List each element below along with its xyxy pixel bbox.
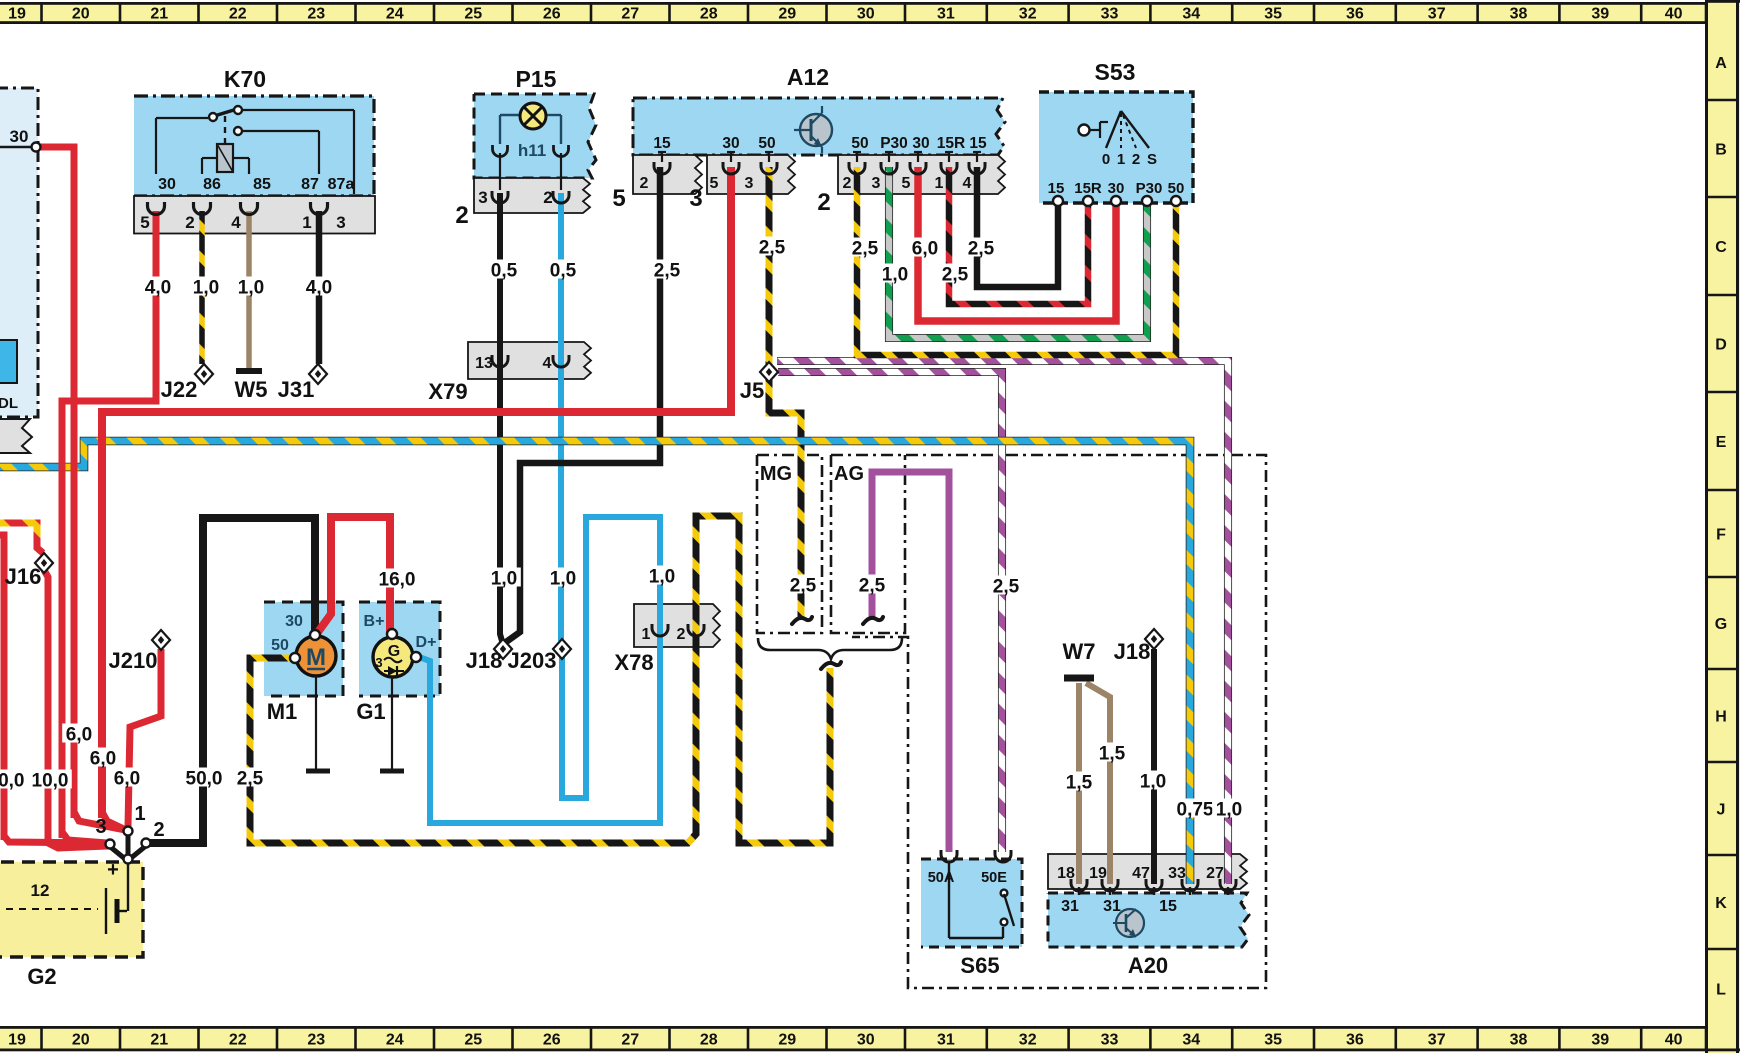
connector strip A12-b (pins 5 3) xyxy=(707,155,795,194)
wire black/yellow striped A12-50 via J5 to MG pigtail xyxy=(769,167,801,620)
ignition switch S53 box xyxy=(1039,92,1193,203)
connector strip A12-c (pins 2 3 5 1 4) xyxy=(838,155,1005,194)
svg-text:87: 87 xyxy=(301,176,319,193)
P15 strip pin numbers xyxy=(478,188,552,207)
svg-text:34: 34 xyxy=(1182,6,1200,23)
label J16 xyxy=(5,564,42,589)
svg-text:X79: X79 xyxy=(428,379,467,404)
wire size labels A20 area xyxy=(1062,743,1246,821)
border ruler bottom xyxy=(0,1026,1740,1051)
svg-text:P15: P15 xyxy=(516,66,557,92)
G1 pin dots xyxy=(387,629,421,662)
splice J16 xyxy=(35,553,53,573)
connector strip K70 (pins 5 2 4 1 3) xyxy=(134,196,375,234)
label J5 xyxy=(740,378,764,403)
harness box MG xyxy=(757,455,822,633)
svg-text:50A: 50A xyxy=(928,870,955,886)
title K70 xyxy=(224,66,266,92)
connector arcs X79 xyxy=(492,355,569,367)
svg-text:W5: W5 xyxy=(235,377,268,402)
svg-text:33: 33 xyxy=(1101,1032,1119,1049)
label G1 xyxy=(356,699,385,724)
relay K70 box xyxy=(134,96,374,196)
connector rect DL (left box) xyxy=(0,340,17,383)
wire grey/green striped S53-P30 to A12 P30 (1,0) xyxy=(889,167,1147,338)
svg-text:3: 3 xyxy=(689,185,702,212)
svg-text:50E: 50E xyxy=(981,870,1007,886)
svg-text:MG: MG xyxy=(760,463,792,485)
svg-text:2,5: 2,5 xyxy=(942,265,969,286)
wire red S53-30 to A12 30 (6,0) xyxy=(918,167,1116,321)
svg-text:34: 34 xyxy=(1182,1032,1200,1049)
svg-text:2: 2 xyxy=(640,175,649,192)
label A20 xyxy=(1128,953,1168,978)
svg-text:15R: 15R xyxy=(1074,180,1102,197)
svg-text:1,5: 1,5 xyxy=(1066,773,1093,794)
svg-text:4: 4 xyxy=(231,213,241,232)
label J18 right xyxy=(1114,639,1151,664)
AG pigtail (purple wire end) xyxy=(863,617,883,624)
svg-text:32: 32 xyxy=(1019,6,1037,23)
wire red far-left (10,0 cut by edge) xyxy=(0,535,4,840)
border ruler top xyxy=(0,2,1740,24)
S53 pin labels xyxy=(1048,180,1185,197)
splice J18 right xyxy=(1145,629,1163,649)
wire size label 16,0 xyxy=(375,569,419,591)
connector arcs X78 xyxy=(652,624,704,636)
svg-text:W7: W7 xyxy=(1063,639,1096,664)
svg-text:30: 30 xyxy=(912,135,929,152)
svg-text:5: 5 xyxy=(902,175,911,192)
wire size labels J18/J203 area xyxy=(487,566,679,590)
svg-text:26: 26 xyxy=(543,1032,561,1049)
X78 pin numbers xyxy=(642,626,686,643)
svg-text:X78: X78 xyxy=(614,650,653,675)
svg-text:22: 22 xyxy=(229,1032,247,1049)
svg-text:20: 20 xyxy=(72,1032,90,1049)
label J210 xyxy=(109,648,158,673)
wire blue P15-2 to J203 xyxy=(558,193,564,641)
connector strip A20 (pins 18 19 47 33 27) xyxy=(1048,854,1247,889)
svg-text:30: 30 xyxy=(857,6,875,23)
svg-text:L: L xyxy=(1716,982,1726,999)
svg-text:50: 50 xyxy=(271,637,289,654)
splice J5 xyxy=(760,362,778,382)
label M1 xyxy=(267,699,298,724)
harness pigtail below brace xyxy=(821,662,841,669)
svg-text:h11: h11 xyxy=(518,141,546,160)
svg-text:3: 3 xyxy=(872,175,881,192)
junction red feeds into node 3 xyxy=(4,832,107,843)
wire red J16 to battery node 3 xyxy=(44,570,108,848)
svg-text:2: 2 xyxy=(1132,151,1140,168)
svg-text:2: 2 xyxy=(185,213,194,232)
svg-text:15: 15 xyxy=(1159,898,1177,915)
svg-text:P30: P30 xyxy=(880,135,908,152)
svg-text:2,5: 2,5 xyxy=(859,576,886,597)
wire red J210 to battery node 1 (6,0) xyxy=(128,649,161,826)
wire black P15-3 to J18 xyxy=(500,193,502,641)
svg-text:15: 15 xyxy=(653,135,671,152)
svg-text:10,0: 10,0 xyxy=(0,771,24,792)
svg-text:1,0: 1,0 xyxy=(649,567,675,588)
svg-text:D: D xyxy=(1715,337,1727,354)
svg-text:5: 5 xyxy=(710,175,719,192)
svg-text:S65: S65 xyxy=(960,953,999,978)
svg-text:25: 25 xyxy=(464,1032,482,1049)
svg-text:J203: J203 xyxy=(508,648,557,673)
wire blue/yellow striped long run (to A20 pin 33) xyxy=(0,441,1190,884)
svg-text:31: 31 xyxy=(937,6,955,23)
svg-text:20: 20 xyxy=(72,6,90,23)
wire size labels K70 xyxy=(141,277,336,299)
svg-text:2: 2 xyxy=(817,189,830,216)
title P15 xyxy=(516,66,557,92)
svg-text:6,0: 6,0 xyxy=(912,239,938,260)
svg-text:A20: A20 xyxy=(1128,953,1168,978)
svg-text:29: 29 xyxy=(778,6,796,23)
svg-text:G: G xyxy=(1715,616,1727,633)
svg-text:35: 35 xyxy=(1264,6,1282,23)
svg-text:2: 2 xyxy=(677,626,686,643)
A12 strip pin numbers xyxy=(640,175,972,192)
svg-text:B+: B+ xyxy=(364,613,385,630)
svg-text:3: 3 xyxy=(478,188,487,207)
label W5 xyxy=(235,377,268,402)
svg-text:28: 28 xyxy=(700,1032,718,1049)
svg-text:36: 36 xyxy=(1346,1032,1364,1049)
svg-text:33: 33 xyxy=(1168,865,1186,882)
svg-text:50,0: 50,0 xyxy=(186,769,223,790)
svg-text:6,0: 6,0 xyxy=(66,725,92,746)
svg-text:27: 27 xyxy=(621,6,639,23)
svg-text:21: 21 xyxy=(150,1032,168,1049)
svg-text:39: 39 xyxy=(1591,1032,1609,1049)
svg-text:18: 18 xyxy=(1057,865,1075,882)
svg-text:2,5: 2,5 xyxy=(759,238,786,259)
svg-text:J22: J22 xyxy=(161,377,198,402)
S65 pin labels xyxy=(928,870,1008,886)
node labels 1 2 3 xyxy=(95,803,164,841)
svg-text:10,0: 10,0 xyxy=(32,771,69,792)
svg-text:19: 19 xyxy=(1089,865,1107,882)
splice J203 xyxy=(553,639,571,659)
wire size labels battery area xyxy=(0,724,267,792)
connector number 2 (P15) xyxy=(455,202,468,229)
battery cell symbol xyxy=(0,888,127,934)
connector numbers 5 3 2 (A12) xyxy=(612,185,830,216)
svg-text:15: 15 xyxy=(1048,180,1065,197)
MG pigtail (black/yellow wire end) xyxy=(792,617,812,624)
svg-text:15R: 15R xyxy=(937,135,965,152)
svg-text:1,0: 1,0 xyxy=(238,278,264,299)
svg-text:12: 12 xyxy=(31,881,50,900)
svg-text:5: 5 xyxy=(612,185,625,212)
svg-text:50: 50 xyxy=(1168,180,1185,197)
svg-text:J18: J18 xyxy=(1114,639,1151,664)
svg-text:2,5: 2,5 xyxy=(968,239,995,260)
svg-text:1,0: 1,0 xyxy=(1216,800,1242,821)
wire purple S65 50A to AG pigtail xyxy=(872,472,949,852)
label S65 xyxy=(960,953,999,978)
svg-text:A12: A12 xyxy=(787,64,829,90)
splice J31 xyxy=(309,364,327,384)
svg-text:1: 1 xyxy=(642,626,651,643)
svg-text:1: 1 xyxy=(935,175,944,192)
wire size labels A12 xyxy=(650,237,789,282)
wire black M1 terminal 30 to battery node 2 (50,0) xyxy=(150,518,315,843)
svg-text:22: 22 xyxy=(229,6,247,23)
svg-text:32: 32 xyxy=(1019,1032,1037,1049)
svg-text:AG: AG xyxy=(834,463,864,485)
A20 pin labels 31 31 15 xyxy=(1061,898,1177,915)
wire black/yellow striped S53-50 to A12 50 (2,5) xyxy=(857,167,1176,355)
svg-text:26: 26 xyxy=(543,6,561,23)
svg-text:40: 40 xyxy=(1665,6,1683,23)
wire red from left box terminal 30 xyxy=(40,147,74,818)
wire black/yellow striped M1 50 via X78-2 to harness pigtail (2,5) xyxy=(250,516,830,843)
label MG xyxy=(760,463,792,485)
svg-text:85: 85 xyxy=(253,176,271,193)
S65 switch symbol xyxy=(949,861,1014,938)
svg-text:0,5: 0,5 xyxy=(491,261,518,282)
battery 12 label xyxy=(31,881,50,900)
svg-text:0: 0 xyxy=(1102,151,1110,168)
svg-text:37: 37 xyxy=(1428,1032,1446,1049)
label X78 xyxy=(614,650,653,675)
svg-text:2: 2 xyxy=(455,202,468,229)
svg-text:G1: G1 xyxy=(356,699,385,724)
junction black links to battery + node xyxy=(108,831,147,858)
svg-text:36: 36 xyxy=(1346,6,1364,23)
svg-text:2,5: 2,5 xyxy=(852,239,879,260)
title S53 xyxy=(1095,59,1136,85)
svg-text:29: 29 xyxy=(778,1032,796,1049)
svg-text:E: E xyxy=(1716,434,1727,451)
wire blue G1 D+ via X78-1 to J203 (1,0) xyxy=(419,517,660,823)
A12 pin labels xyxy=(653,135,987,152)
label AG xyxy=(834,463,864,485)
border ruler right xyxy=(1705,0,1740,1053)
splice J22 xyxy=(195,364,213,384)
svg-text:37: 37 xyxy=(1428,6,1446,23)
svg-text:K70: K70 xyxy=(224,66,266,92)
control unit A20 box xyxy=(1048,893,1249,947)
svg-text:1,5: 1,5 xyxy=(1099,744,1126,765)
G1 ground lead xyxy=(380,677,404,771)
wire size labels P15/X79 xyxy=(487,260,580,282)
svg-text:27: 27 xyxy=(621,1032,639,1049)
svg-text:16,0: 16,0 xyxy=(379,570,416,591)
label G2 xyxy=(27,964,56,989)
battery G2 box xyxy=(0,862,143,957)
splice J210 xyxy=(152,630,170,650)
svg-text:30: 30 xyxy=(722,135,739,152)
svg-text:24: 24 xyxy=(386,6,404,23)
wire black K70-1 to J31 (4,0) xyxy=(316,211,323,364)
wire size labels MG/AG xyxy=(786,575,1023,598)
junction red feeds into node 1 xyxy=(74,812,126,830)
svg-text:1,0: 1,0 xyxy=(882,265,908,286)
svg-text:19: 19 xyxy=(8,6,26,23)
M1 pin dots xyxy=(290,630,320,663)
switch S65 box xyxy=(921,859,1022,947)
wire black S53-15 to A12 15 (2,5) xyxy=(977,167,1058,287)
svg-text:31: 31 xyxy=(1061,898,1079,915)
svg-text:J16: J16 xyxy=(5,564,42,589)
ground W7 xyxy=(1064,675,1094,682)
transistor symbol A20 xyxy=(1113,909,1144,937)
svg-text:2: 2 xyxy=(153,819,164,841)
svg-text:+: + xyxy=(107,859,119,881)
svg-text:J5: J5 xyxy=(740,378,764,403)
svg-text:1,0: 1,0 xyxy=(193,278,219,299)
svg-text:30: 30 xyxy=(10,127,29,146)
pin contact arcs K70 xyxy=(148,202,328,215)
svg-text:38: 38 xyxy=(1510,6,1528,23)
svg-text:31: 31 xyxy=(937,1032,955,1049)
wire brown W7 to A20 pin 18 (1,5) xyxy=(1076,683,1082,884)
label W7 xyxy=(1063,639,1096,664)
svg-text:38: 38 xyxy=(1510,1032,1528,1049)
svg-text:31: 31 xyxy=(1103,898,1121,915)
svg-text:19: 19 xyxy=(8,1032,26,1049)
label J22 xyxy=(161,377,198,402)
generator G symbol xyxy=(373,637,413,677)
svg-text:47: 47 xyxy=(1132,865,1150,882)
svg-text:3: 3 xyxy=(95,816,106,838)
splice J18 left xyxy=(494,639,512,659)
wire black/yellow striped K70-2 to J22 (1,0) xyxy=(199,211,205,364)
svg-text:2,5: 2,5 xyxy=(993,577,1020,598)
starter motor M1 box xyxy=(264,602,343,696)
svg-text:23: 23 xyxy=(307,6,325,23)
svg-text:S: S xyxy=(1147,151,1157,168)
wire red 16,0 G1 B+ to M1 30 xyxy=(318,517,390,636)
svg-text:3: 3 xyxy=(745,175,754,192)
svg-text:87a: 87a xyxy=(328,176,355,193)
transistor symbol A12 xyxy=(794,106,832,153)
wire purple/white striped J5 to A20 pin 27 xyxy=(777,361,1228,884)
title A12 xyxy=(787,64,829,90)
label 30 (left box) xyxy=(10,127,29,146)
svg-text:1,0: 1,0 xyxy=(491,569,517,590)
svg-text:24: 24 xyxy=(386,1032,404,1049)
svg-text:F: F xyxy=(1716,527,1726,544)
svg-text:2: 2 xyxy=(543,188,552,207)
wire size labels S53 bundle xyxy=(848,238,998,286)
svg-text:86: 86 xyxy=(203,176,221,193)
relay K70 internal switch xyxy=(156,106,354,194)
svg-text:K: K xyxy=(1715,895,1727,912)
svg-text:0,75: 0,75 xyxy=(1177,800,1214,821)
connector arcs A20 xyxy=(1071,879,1236,895)
svg-text:4,0: 4,0 xyxy=(145,278,171,299)
svg-text:50: 50 xyxy=(851,135,868,152)
relay K70 coil xyxy=(202,144,249,174)
lamp symbol h11 xyxy=(500,103,561,144)
svg-text:21: 21 xyxy=(150,6,168,23)
wire purple/white striped J5 to S65 50E xyxy=(778,372,1002,852)
svg-text:H: H xyxy=(1715,709,1727,726)
wire red/yellow striped from left edge to J16 xyxy=(0,523,43,553)
harness box AG and S65/A20 dash-dot enclosure xyxy=(831,455,1266,988)
wire brown W7 to A20 pin 19 (1,5) xyxy=(1086,683,1110,884)
wire black/red striped S53-15R to A12 15R (2,5) xyxy=(949,167,1088,304)
svg-text:25: 25 xyxy=(464,6,482,23)
svg-text:1: 1 xyxy=(1117,151,1125,168)
ground W5 xyxy=(236,368,262,374)
svg-text:50: 50 xyxy=(758,135,775,152)
label X79 xyxy=(428,379,467,404)
svg-text:2,5: 2,5 xyxy=(790,576,817,597)
svg-text:6,0: 6,0 xyxy=(90,749,116,770)
connector strip P15 (pins 3 2) xyxy=(474,178,590,213)
svg-text:13: 13 xyxy=(475,355,493,372)
svg-text:15: 15 xyxy=(969,135,987,152)
svg-text:33: 33 xyxy=(1101,6,1119,23)
connector strip (left edge, partial) xyxy=(0,419,32,453)
svg-text:4: 4 xyxy=(543,355,552,372)
svg-text:23: 23 xyxy=(307,1032,325,1049)
brace under MG/AG xyxy=(758,638,902,659)
svg-text:6,0: 6,0 xyxy=(114,769,140,790)
svg-text:3: 3 xyxy=(336,213,345,232)
svg-text:30: 30 xyxy=(285,613,303,630)
svg-text:1: 1 xyxy=(134,803,145,825)
control unit A12 box xyxy=(633,98,1005,155)
S65 contact arcs xyxy=(941,850,1011,862)
terminal 30 wire and node (left box) xyxy=(0,143,41,152)
A20 strip pin numbers xyxy=(1057,865,1224,882)
wire red K70 pin5 to battery node 3 (4,0) xyxy=(62,211,156,838)
svg-text:4,0: 4,0 xyxy=(306,278,332,299)
svg-text:35: 35 xyxy=(1264,1032,1282,1049)
svg-text:2,5: 2,5 xyxy=(654,261,681,282)
M symbol letter xyxy=(306,644,326,671)
label DL xyxy=(0,395,18,412)
svg-text:B: B xyxy=(1715,142,1727,159)
svg-text:1,0: 1,0 xyxy=(550,569,576,590)
svg-text:J: J xyxy=(1717,802,1726,819)
label J31 xyxy=(278,377,315,402)
svg-text:1: 1 xyxy=(302,213,311,232)
svg-text:3: 3 xyxy=(375,655,382,670)
wire black A12-15 to J18 (2,5) xyxy=(506,167,660,642)
svg-text:S53: S53 xyxy=(1095,59,1136,85)
svg-text:28: 28 xyxy=(700,6,718,23)
label J203 xyxy=(508,648,557,673)
svg-text:G: G xyxy=(388,643,400,660)
connector strip X79 (pins 13 4) xyxy=(468,342,591,379)
svg-text:30: 30 xyxy=(857,1032,875,1049)
X79 pin numbers xyxy=(475,355,551,372)
svg-text:1,0: 1,0 xyxy=(1140,772,1166,793)
svg-text:39: 39 xyxy=(1591,6,1609,23)
wire brown K70-4 to W5 (1,0) xyxy=(246,211,252,368)
connector arcs P15 strip xyxy=(492,153,569,203)
svg-text:J18: J18 xyxy=(466,648,503,673)
pin stubs and arcs A12 xyxy=(654,152,985,174)
M1 ground lead xyxy=(306,676,330,771)
lamp socket arcs P15 xyxy=(493,145,569,157)
svg-text:2: 2 xyxy=(843,175,852,192)
svg-text:27: 27 xyxy=(1206,865,1224,882)
svg-text:D+: D+ xyxy=(416,634,437,651)
svg-text:40: 40 xyxy=(1665,1032,1683,1049)
svg-text:M1: M1 xyxy=(267,699,298,724)
svg-text:DL: DL xyxy=(0,395,18,412)
